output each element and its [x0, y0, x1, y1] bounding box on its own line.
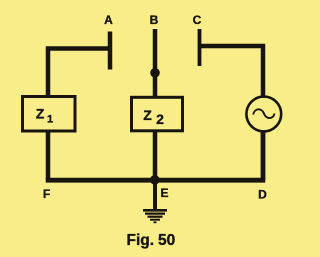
svg-text:50: 50: [158, 232, 175, 249]
svg-text:E: E: [161, 186, 169, 200]
svg-text:C: C: [193, 13, 202, 27]
svg-text:Z: Z: [36, 106, 45, 122]
svg-text:Z: Z: [143, 107, 152, 123]
svg-text:1: 1: [47, 114, 53, 126]
svg-text:2: 2: [156, 111, 164, 127]
svg-text:D: D: [258, 188, 267, 202]
svg-text:Fig.: Fig.: [127, 232, 155, 249]
svg-text:A: A: [104, 13, 113, 27]
svg-text:B: B: [150, 13, 159, 27]
svg-text:F: F: [43, 187, 50, 201]
